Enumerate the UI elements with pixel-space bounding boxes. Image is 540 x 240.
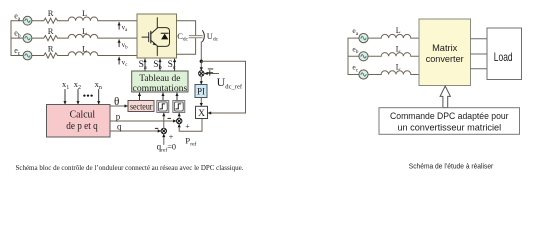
IGBT collector lead — [156, 18, 158, 28]
arrow hys1->tableau — [162, 93, 164, 101]
q_ref input — [163, 134, 165, 145]
U_dc measuring arc — [203, 31, 205, 42]
stub c — [348, 74, 359, 76]
svg-text:L: L — [82, 43, 87, 53]
svg-text:+: + — [185, 122, 190, 131]
p output wire — [110, 120, 176, 122]
IGBT collector slant — [151, 28, 158, 34]
resistor R phase c — [42, 53, 60, 58]
diode cathode bar — [161, 32, 168, 34]
arrow secteur->tableau — [139, 93, 141, 101]
svg-text:+: + — [169, 132, 174, 141]
wire phase a from bus to source — [11, 20, 23, 22]
svg-text:PI: PI — [197, 86, 205, 96]
command box — [379, 108, 520, 135]
inductor L phase b — [68, 34, 98, 38]
output wires to load — [471, 38, 488, 40]
resistor R phase a — [42, 18, 60, 23]
IGBT emitter slant with arrow — [151, 40, 158, 46]
wire converter top to capacitor — [177, 21, 196, 36]
svg-text:R: R — [48, 43, 54, 53]
inductor L phase a — [68, 17, 98, 21]
svg-text:vb: vb — [122, 41, 129, 51]
matrix converter box — [419, 19, 471, 86]
svg-text:ec: ec — [352, 63, 358, 74]
wire c — [368, 74, 381, 76]
capacitor C_dc plates — [189, 35, 202, 37]
wire b L->converter — [98, 37, 137, 39]
svg-text:secteur: secteur — [130, 101, 153, 111]
PI box — [195, 85, 207, 98]
inductor L b right — [381, 53, 411, 57]
p junction -> hys2 — [178, 113, 180, 118]
svg-text:q: q — [117, 122, 122, 132]
q junction -> hys1 — [163, 113, 165, 128]
svg-text:un convertisseur matriciel: un convertisseur matriciel — [397, 122, 501, 133]
sense wire down to node — [200, 42, 202, 62]
stub a — [348, 37, 359, 39]
svg-text:Load: Load — [494, 50, 513, 64]
tableau de commutations box — [132, 71, 188, 92]
theta output arrow — [110, 105, 128, 107]
svg-text:X: X — [198, 109, 205, 119]
arrow v_c — [118, 57, 120, 64]
wire b source->R — [32, 37, 42, 39]
IGBT emitter lead — [156, 46, 158, 55]
converter (onduleur) box — [137, 14, 177, 58]
hysteresis comparator 2 — [173, 101, 185, 113]
svg-text:Sa: Sa — [139, 60, 147, 71]
plus-minus signs — [208, 68, 213, 70]
arrow v_a — [118, 22, 120, 29]
wire a source->R — [32, 20, 42, 22]
svg-text:vc: vc — [122, 58, 129, 68]
svg-text:Cdc: Cdc — [177, 31, 188, 43]
q summing junction — [161, 128, 166, 133]
p summing junction — [177, 118, 182, 123]
load box — [487, 28, 522, 80]
svg-text:p: p — [116, 112, 121, 122]
freewheel diode loop — [157, 28, 169, 47]
wire c R->L — [60, 55, 69, 57]
svg-text:x2: x2 — [74, 79, 81, 91]
source Vc — [23, 51, 32, 60]
U_dc_ref stub — [205, 73, 219, 75]
IGBT body bar — [150, 31, 152, 42]
minus sign p — [168, 117, 171, 119]
calcul box — [47, 105, 111, 138]
resistor R phase b — [42, 36, 60, 41]
x input arrows — [64, 90, 66, 105]
source c right — [359, 70, 368, 79]
PI -> X arrow — [200, 98, 202, 107]
wire b — [368, 55, 381, 57]
p_ref path from X box — [179, 119, 202, 132]
svg-text:x1: x1 — [62, 79, 69, 91]
U_dc summing junction — [199, 71, 204, 76]
svg-text:qref=0: qref=0 — [157, 142, 176, 154]
svg-text:L: L — [82, 8, 87, 18]
bus (left vertical) — [10, 21, 12, 56]
source Vb — [23, 34, 32, 43]
feedback wire node -> X box — [201, 61, 245, 113]
svg-text:R: R — [48, 8, 54, 18]
svg-text:Calcul: Calcul — [70, 109, 96, 121]
wire phase c from bus to source — [11, 55, 23, 57]
node — [200, 60, 203, 63]
wire converter bottom to capacitor — [177, 38, 196, 54]
q output wire — [110, 130, 161, 132]
arrow hys2->tableau — [176, 93, 178, 101]
IGBT gate lead — [142, 36, 149, 38]
svg-text:commutations: commutations — [133, 83, 188, 94]
arrow v_b — [118, 40, 120, 47]
svg-text:xn: xn — [95, 79, 102, 91]
svg-text:converter: converter — [426, 53, 464, 64]
stub b — [348, 55, 359, 57]
svg-text:Pref: Pref — [185, 136, 196, 148]
minus sign q — [155, 127, 158, 129]
svg-text:L: L — [396, 26, 401, 35]
svg-text:R: R — [48, 26, 54, 36]
wire b R->L — [60, 37, 69, 39]
inductor L c right — [381, 71, 411, 75]
bus right diagram — [347, 38, 349, 74]
svg-text:Udc: Udc — [207, 31, 219, 43]
svg-text:eb: eb — [352, 44, 358, 55]
wire c source->R — [32, 55, 42, 57]
svg-text:Matrix: Matrix — [432, 42, 457, 53]
wire a — [368, 37, 381, 39]
inductor L phase c — [68, 52, 98, 56]
svg-text:Schéma bloc de contrôle de l’o: Schéma bloc de contrôle de l’onduleur co… — [16, 164, 244, 172]
secteur box — [128, 101, 154, 112]
svg-text:Udc_ref: Udc_ref — [217, 75, 243, 91]
svg-text:L: L — [82, 26, 87, 36]
wire c L->converter — [98, 55, 137, 57]
block arrow command->matrix — [440, 86, 450, 108]
S arrows converter<-tableau — [144, 59, 146, 71]
svg-text:ea: ea — [352, 26, 358, 37]
svg-text:L: L — [396, 63, 401, 72]
source b right — [359, 52, 368, 61]
wire phase b from bus to source — [11, 37, 23, 39]
source a right — [359, 34, 368, 43]
svg-text:Commande DPC adaptée pour: Commande DPC adaptée pour — [390, 110, 509, 121]
svg-text:va: va — [122, 24, 129, 34]
svg-text:θ: θ — [114, 96, 119, 108]
hysteresis comparator 1 — [157, 101, 169, 113]
svg-text:Sb: Sb — [153, 60, 162, 71]
diode triangle — [161, 34, 168, 40]
IGBT gate bar — [148, 33, 150, 42]
svg-text:Schéma de l’étude à réaliser: Schéma de l’étude à réaliser — [409, 161, 494, 170]
source Va — [23, 16, 32, 25]
wire a L->converter — [98, 20, 137, 22]
svg-text:de p et q: de p et q — [66, 120, 98, 132]
wire a R->L — [60, 20, 69, 22]
svg-text:L: L — [396, 44, 401, 53]
U_dc junction arrow in — [200, 63, 202, 71]
junction -> PI arrow — [200, 76, 202, 84]
X multiplier box — [196, 106, 208, 118]
inductor L a right — [381, 34, 411, 38]
